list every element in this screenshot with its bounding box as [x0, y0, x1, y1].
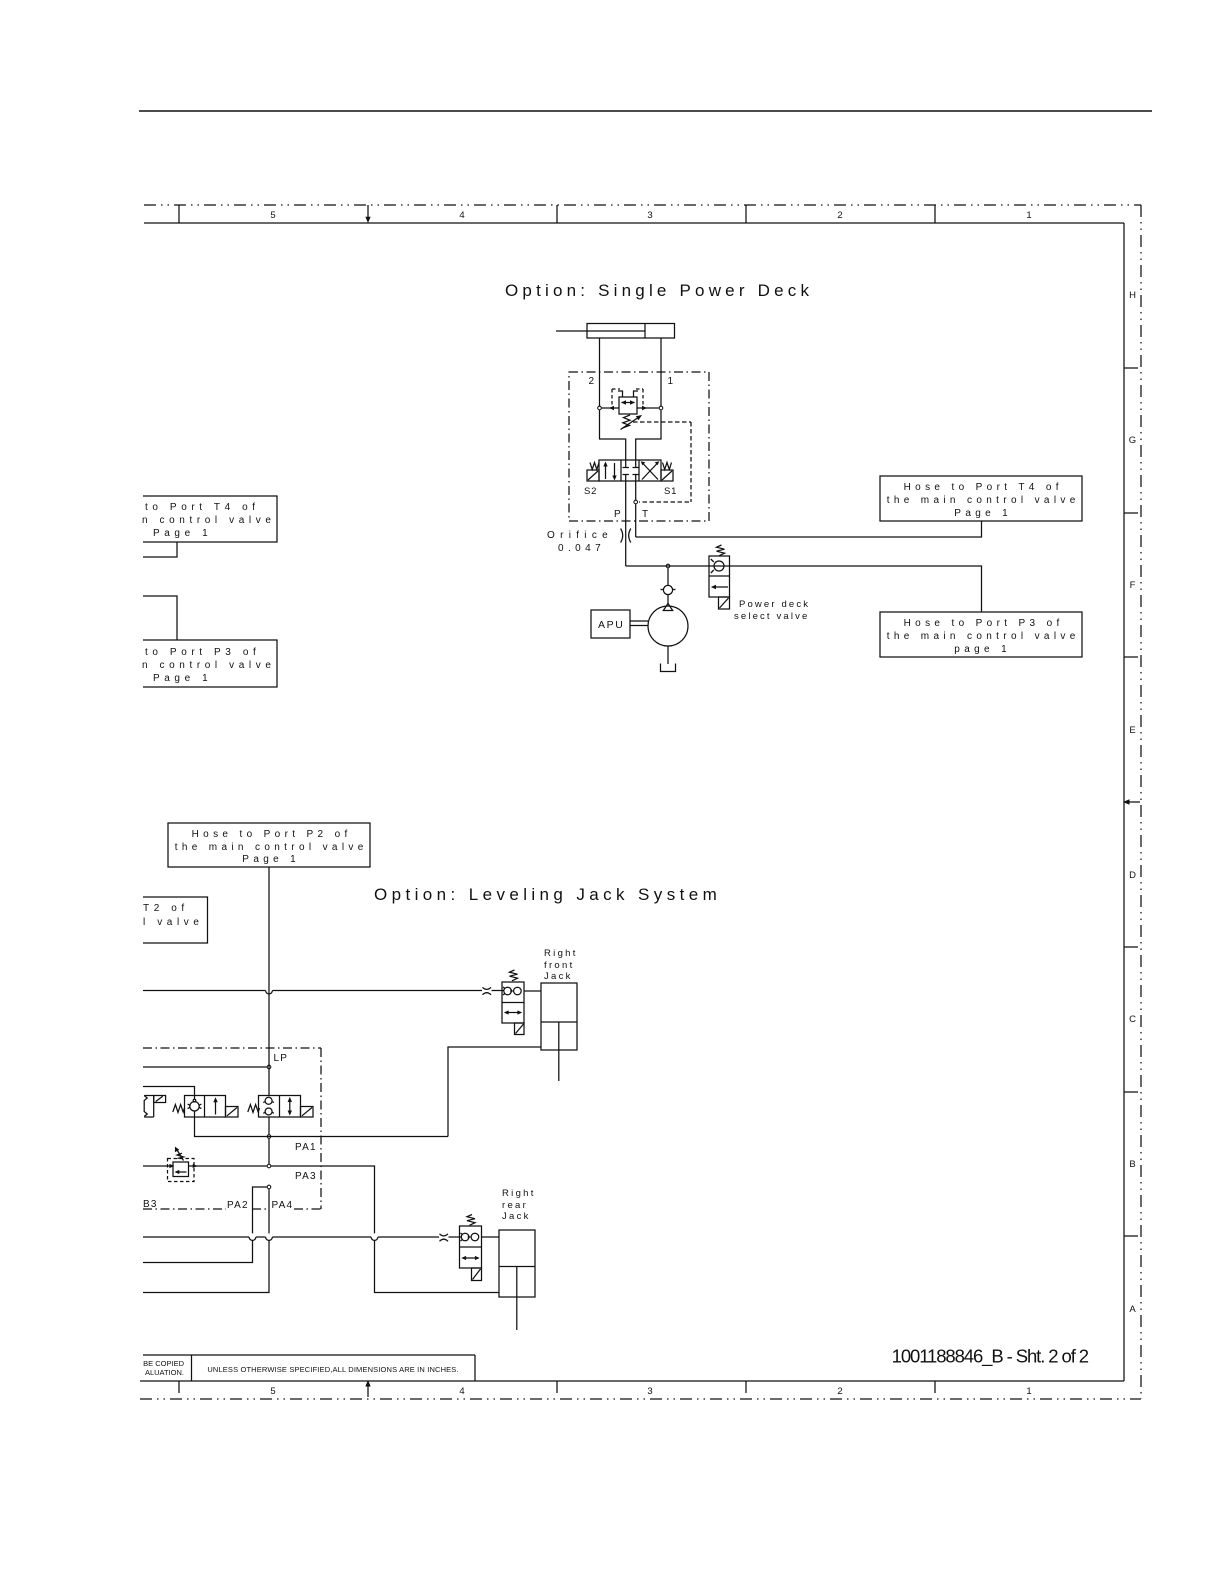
check valve above pump [661, 568, 676, 604]
svg-text:l valve: l valve [143, 917, 204, 928]
svg-text:3: 3 [647, 210, 652, 221]
svg-text:Hose to Port P2 of: Hose to Port P2 of [192, 829, 352, 840]
DV1 right spring [663, 463, 672, 470]
cylinder (single power deck actuator) [556, 324, 675, 339]
rear check valve shift arrow [461, 1256, 479, 1260]
svg-text:Option: Leveling Jack System: Option: Leveling Jack System [374, 885, 721, 904]
svg-text:Hose to Port P3 of: Hose to Port P3 of [904, 618, 1064, 629]
CB1 spring [623, 415, 631, 428]
wire stub to left P3 box [143, 596, 177, 640]
CB1 left port wire with arrow [602, 406, 619, 410]
V1 ball check position [188, 1096, 202, 1118]
right ruler ticks [1124, 368, 1138, 1236]
CB1 top pilot hooks [618, 391, 638, 397]
svg-text:rear: rear [502, 1200, 528, 1211]
svg-text:D: D [1129, 870, 1136, 881]
svg-text:page 1: page 1 [954, 644, 1011, 655]
svg-text:1: 1 [1026, 210, 1031, 221]
svg-text:1001188846_B - Sht. 2 of 2: 1001188846_B - Sht. 2 of 2 [892, 1346, 1089, 1368]
svg-text:PA1: PA1 [295, 1142, 317, 1153]
wire stub from left T4 box [143, 542, 177, 557]
pump inlet triangle [663, 604, 672, 611]
tank symbol [661, 664, 676, 672]
CB1 dashed pilot box [612, 389, 643, 408]
svg-text:PA2: PA2 [227, 1200, 249, 1211]
label Right front Jack [544, 948, 578, 982]
wire top link to valve V1 [143, 1087, 195, 1096]
svg-text:to Port P3 of: to Port P3 of [145, 647, 260, 658]
V1 solenoid [226, 1107, 239, 1118]
wire PRV to PA3 node [189, 1164, 267, 1168]
V1 flow position arrow [213, 1097, 217, 1114]
wire check to front jack [524, 990, 541, 992]
directional valve DV1 body [599, 460, 661, 481]
svg-text:Page 1: Page 1 [153, 528, 212, 539]
PRV dashed enclosure [168, 1159, 195, 1182]
svg-text:S1: S1 [664, 486, 677, 497]
CB1 adjustment arrow [621, 415, 643, 430]
svg-text:Hose to Port T4 of: Hose to Port T4 of [904, 482, 1063, 493]
DV1 left position parallel arrows [603, 462, 616, 481]
wire T-line to T4 box [636, 521, 982, 537]
CB1 right port wire with arrow [637, 406, 659, 410]
DV1 solenoid S2 box [587, 470, 599, 481]
bottom ruler zone numbers [270, 1386, 1031, 1397]
svg-text:Power deck: Power deck [739, 599, 810, 610]
right front jack cylinder [541, 983, 577, 1081]
sheet top rule line [139, 110, 1152, 112]
svg-text:the main control valve: the main control valve [175, 842, 368, 853]
svg-text:1: 1 [668, 376, 674, 387]
power deck assembly dash-dot boundary [569, 372, 709, 521]
svg-text:2: 2 [589, 376, 595, 387]
svg-text:C: C [1129, 1014, 1136, 1025]
pump circle [648, 606, 688, 646]
callout box: Port T4 (left, cropped) [143, 496, 277, 542]
svg-text:T: T [642, 509, 648, 520]
svg-text:the main control valve: the main control valve [887, 495, 1080, 506]
svg-text:2: 2 [837, 210, 842, 221]
svg-text:APU: APU [598, 619, 624, 631]
title block notice text (cropped) [143, 1359, 184, 1377]
svg-text:Jack: Jack [502, 1211, 531, 1222]
svg-text:Page 1: Page 1 [153, 673, 212, 684]
svg-text:1: 1 [1026, 1386, 1031, 1397]
V2 solenoid [301, 1107, 314, 1118]
bottom center arrow marker [365, 1380, 370, 1397]
svg-text:Jack: Jack [544, 971, 573, 982]
svg-text:3: 3 [647, 1386, 652, 1397]
wire V1 bottom to PA1 rail [195, 1117, 449, 1137]
callout box: Hose to Port T4 (right) [880, 476, 1082, 521]
orifice at front jack [483, 987, 492, 995]
front check valve spring [510, 970, 518, 981]
callout box: Hose to Port P2 [168, 823, 370, 867]
rear jack pilot check valve body [460, 1226, 482, 1268]
svg-text:Right: Right [544, 948, 578, 959]
node pump tee [666, 564, 670, 568]
bottom ruler ticks [179, 1381, 935, 1393]
svg-text:LP: LP [274, 1053, 289, 1064]
callout box: Port T2 (left, cropped) [143, 897, 208, 943]
svg-text:2: 2 [837, 1386, 842, 1397]
wire PA3 branch continues past hop [375, 1241, 500, 1293]
pump outlet to tank [667, 646, 669, 664]
rear check valve spring [467, 1215, 475, 1226]
wire P-line to P3 box [626, 566, 982, 612]
rear check valve solenoid [472, 1268, 482, 1281]
power deck select valve spring [717, 545, 725, 556]
node PA3 junction [267, 1164, 271, 1168]
wire P port down [625, 481, 627, 566]
select valve ball position [711, 559, 724, 573]
wire PA3 branch to rear jack piston side [271, 1166, 374, 1233]
right ruler zone letters [1129, 290, 1137, 1315]
wire check to rear jack [482, 1236, 500, 1238]
node port2 [598, 406, 602, 410]
svg-text:PA4: PA4 [272, 1200, 294, 1211]
APU drive shaft [630, 621, 648, 626]
drawing border: solid inner bottom [140, 1380, 1124, 1382]
wire T port down [635, 481, 637, 500]
wire into PRV with arrows [143, 1164, 174, 1168]
V2 double arrow position [288, 1097, 292, 1116]
front check valve circles [503, 987, 521, 995]
pressure reducing valve PRV [173, 1162, 189, 1177]
right rear jack cylinder [499, 1230, 535, 1330]
wire PA1 to PA3 node [268, 1139, 270, 1164]
node PA2 junction [267, 1185, 271, 1189]
wire V2 bottom [268, 1117, 270, 1134]
drawing border: solid inner top [144, 222, 1124, 224]
svg-text:front: front [544, 960, 575, 971]
top ruler ticks [179, 205, 935, 223]
title block box [143, 1355, 475, 1381]
svg-text:Page 1: Page 1 [242, 854, 300, 865]
svg-text:Page 1: Page 1 [954, 508, 1012, 519]
svg-text:4: 4 [459, 210, 464, 221]
svg-text:H: H [1129, 290, 1136, 301]
svg-text:n control valve: n control valve [142, 660, 275, 671]
drawing border: dash-dot outer bottom [140, 1398, 1141, 1400]
svg-text:F: F [1130, 580, 1136, 591]
solenoid valve V2 body [259, 1096, 301, 1118]
node T drain [634, 500, 638, 504]
manifold dash-dot boundary [143, 1048, 321, 1209]
top ruler zone numbers [270, 210, 1031, 221]
V2 spring [248, 1105, 260, 1113]
wire port 1 line upper [660, 338, 662, 406]
svg-text:Orifice: Orifice [547, 530, 613, 541]
callout box: Hose to Port P3 (right) [880, 612, 1082, 657]
svg-text:Option: Single Power Deck: Option: Single Power Deck [505, 281, 813, 300]
svg-text:P: P [614, 509, 621, 520]
DV1 right position crossed arrows [641, 461, 660, 479]
orifice at rear jack [440, 1234, 449, 1242]
select valve flow position arrow [711, 585, 728, 589]
drawing border: solid inner right [1123, 223, 1125, 1381]
wire P2 bottom turn left [143, 1241, 269, 1293]
svg-text:UNLESS OTHERWISE SPECIFIED,ALL: UNLESS OTHERWISE SPECIFIED,ALL DIMENSION… [207, 1365, 458, 1374]
select valve solenoid [719, 597, 730, 609]
right center arrow marker [1123, 799, 1140, 804]
svg-text:n control valve: n control valve [142, 515, 275, 526]
DV1 left spring [590, 463, 599, 470]
rear check valve circles [461, 1233, 479, 1241]
drawing border: dash-dot outer top [144, 204, 1141, 206]
orifice 0.047 symbol [621, 529, 631, 543]
counterbalance valve CB1 body [619, 397, 637, 414]
top center arrow marker [365, 205, 370, 223]
wire PA2 continues past hop [143, 1241, 253, 1263]
wire PA2 jog [253, 1187, 267, 1233]
svg-text:T2 of: T2 of [143, 903, 189, 914]
svg-text:S2: S2 [584, 486, 597, 497]
DV1 center position blocked ports [623, 460, 639, 481]
solenoid valve V1 body [185, 1096, 226, 1118]
wire front jack rod side return [448, 1047, 541, 1137]
svg-text:PA3: PA3 [295, 1171, 317, 1182]
svg-text:A: A [1129, 1304, 1136, 1315]
dashed pilot drain line [633, 422, 691, 502]
svg-text:ALUATION.: ALUATION. [145, 1368, 184, 1377]
front jack pilot check valve body [502, 982, 524, 1023]
wire port2 lower jog [600, 410, 626, 460]
wire P2 main vertical [268, 867, 270, 1096]
svg-text:5: 5 [270, 210, 275, 221]
cropped valve fragment at left edge [144, 1096, 165, 1118]
svg-text:select valve: select valve [734, 611, 809, 622]
wire P2 continues down [268, 1189, 270, 1233]
svg-text:B3: B3 [143, 1199, 158, 1210]
wire supply line to rear jack valve with hops [143, 1237, 461, 1240]
V2 double ball position [263, 1097, 274, 1115]
svg-text:E: E [1129, 725, 1135, 736]
node LP [267, 1065, 271, 1069]
V1 spring [173, 1105, 185, 1113]
callout box: Port P3 (left, cropped) [143, 640, 277, 687]
wire port1 lower jog [636, 410, 661, 460]
wire supply line to front jack valve [143, 991, 504, 994]
svg-text:5: 5 [270, 1386, 275, 1397]
front check valve solenoid [515, 1023, 525, 1035]
drawing border: dash-dot outer right [1140, 205, 1142, 1399]
PRV spring and adjustment arrow [175, 1147, 184, 1161]
svg-text:Right: Right [502, 1188, 536, 1199]
svg-text:G: G [1129, 435, 1136, 446]
node PA1 junction [267, 1135, 271, 1139]
svg-text:BE COPIED: BE COPIED [143, 1359, 184, 1368]
svg-text:to Port T4 of: to Port T4 of [145, 502, 260, 513]
svg-text:0.047: 0.047 [558, 543, 605, 554]
wire T down to T-line [635, 504, 637, 537]
power deck select valve body [709, 556, 730, 597]
wire LP line [143, 1066, 267, 1068]
node port1 [659, 406, 663, 410]
wire port 2 line upper [599, 338, 601, 406]
front check valve shift arrow [504, 1010, 522, 1014]
DV1 solenoid S1 box [661, 470, 673, 481]
svg-text:B: B [1129, 1159, 1135, 1170]
svg-text:the main control valve: the main control valve [887, 631, 1080, 642]
label Right rear Jack [502, 1188, 536, 1222]
svg-text:4: 4 [459, 1386, 464, 1397]
APU box [591, 610, 630, 638]
